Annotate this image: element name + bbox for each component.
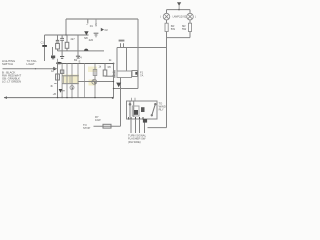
lamp L1 (left turn lamp) [163,13,170,20]
wires below box [130,119,132,133]
node at y81.5 [113,81,114,82]
node junction rail A/B [65,34,66,35]
ground at second drop [94,33,99,37]
wire lamp1 bottom stub [166,20,168,23]
svg-text:LG: LT GREEN: LG: LT GREEN [2,80,21,84]
rail C (ladder top rail) [58,63,114,65]
wire C1 top lead [44,35,46,45]
transistor Q3 below relay [116,83,121,88]
svg-text:(RH SIDE): (RH SIDE) [128,140,141,144]
relay coil K1 [117,71,132,78]
svg-text:4k7: 4k7 [70,37,75,41]
ladder wire x95 [94,64,96,98]
node x113.5/y88.5 [113,88,114,89]
dark contact blob 1 [134,110,138,115]
cluster mid horizontal wire [58,50,105,52]
rail E (bottom rail) [4,97,114,99]
ladder wire x62 [61,64,63,98]
diode D2 small [101,28,104,32]
ladder wire x67 [66,64,68,98]
wire lamp2 bottom stub [189,20,191,23]
box edge on patch [62,75,79,77]
transistor Q1 blob on mid wire [84,49,88,51]
contact box K1b [132,71,138,77]
ground g1 blob [51,56,55,59]
capacitor C1 plate [42,45,47,47]
svg-text:(12V32): (12V32) [179,16,187,18]
rail A (top supply rail) [66,18,138,20]
svg-text:STOP: STOP [83,126,90,130]
dark contact blob 2 [141,107,145,112]
svg-text:SiB: SiB [84,37,88,40]
resistor R1 on x57.5 [57,35,59,40]
wire rail A left drop [65,19,67,35]
tick component on x62 [60,70,63,73]
transistor Q4 on x72 [70,86,74,90]
node at rail C right end [113,63,115,65]
resistor R5 on x105 [103,70,107,76]
transistor Q2 [92,79,97,84]
wire below relay x120.5 [120,78,122,127]
resistor R12 (under right lamp) [188,23,191,31]
node rail E right end [112,97,114,99]
node dots on rail E [94,97,95,98]
wire x138 drop from rail A [137,19,139,89]
svg-text:SWITCH: SWITCH [2,62,13,66]
yellow patch 2 [89,80,97,86]
resistor R7 [103,124,111,128]
ladder wire x105 [104,64,106,71]
node x120.5/y88.5 [120,88,121,89]
long vertical x113.5 [113,64,115,98]
svg-text:RLY: RLY [159,107,164,111]
switch box S1 outline [127,101,158,119]
relay legs [116,48,118,72]
node tick on left feed [35,68,36,69]
wire y127.5 to long vertical [148,127,167,129]
capacitor C3 stub [52,47,54,55]
wire lamp1 top stub [166,10,168,14]
contact wire 2 in box [133,101,135,117]
dark blob near lever bottom wire [143,119,147,123]
wire top feed horizontal [167,9,191,11]
pin ticks left of column [54,69,56,84]
wire under R11 down [166,32,168,128]
wire lamp2 top stub [189,10,191,14]
resistor R11 (under left lamp) [165,23,168,31]
svg-text:220: 220 [89,38,94,42]
wire under R12 down [189,32,191,38]
diode D1 [84,31,88,35]
resistor R4 on x95 [93,70,97,76]
column x57.5 [57,64,59,98]
power arrow symbol (battery feed, top right) [177,2,181,9]
yellow patch 1 [62,75,79,85]
mid horizontal wire y81.5 [78,81,114,83]
ladder wire x72 [71,64,73,98]
svg-text:10W: 10W [95,118,101,122]
arrow into column [53,67,57,71]
capacitor C2 on x62 [60,38,64,40]
wire C1 bottom lead [44,47,46,61]
relay left attach [114,70,116,78]
diode D3 near column [59,89,63,93]
pin marks at box bottom [129,117,143,120]
switch lever [152,104,156,115]
svg-text:7A: 7A [140,73,143,77]
svg-text:+B: +B [53,92,57,96]
svg-text:LIGHT: LIGHT [27,62,36,66]
node junction at feed [178,9,180,11]
node dot bottom x62 [61,97,62,98]
wire y88.5 [114,88,139,90]
wire diode drop from rail A [87,19,89,24]
ground g3 [76,56,80,58]
label bar above prongs [119,40,125,42]
wire lamp feed y47.5 [117,47,167,49]
arrow left end of rail E [4,96,7,99]
contact stubs above box [131,98,133,101]
resistor R3 in column [56,74,60,80]
wire x78 upper [77,35,79,51]
contact wire 1 in box [129,101,131,117]
lamp L2 (right turn lamp) [187,13,194,20]
rail B (cluster top rail) [45,34,89,36]
ladder wire x84.5 (faint) [84,64,86,98]
ladder wire x78 lower [77,64,79,98]
ground g2 [60,57,64,59]
wire second drop from rail A [95,19,97,27]
svg-text:5W: 5W [182,27,187,31]
bottom wire to switch [94,125,121,127]
yellow patch 3 [88,67,97,73]
inner contact block [132,106,139,116]
svg-text:5W: 5W [171,27,176,31]
resistor R2 on x67 [66,35,68,42]
wire left feed [3,68,56,70]
oscillator contact prongs [120,43,122,47]
wire R5 bottom to long vertical [104,75,106,77]
svg-text:C4: C4 [78,56,82,60]
wire joining lamp legs [167,37,191,39]
junction blob at rail C start [56,62,62,64]
